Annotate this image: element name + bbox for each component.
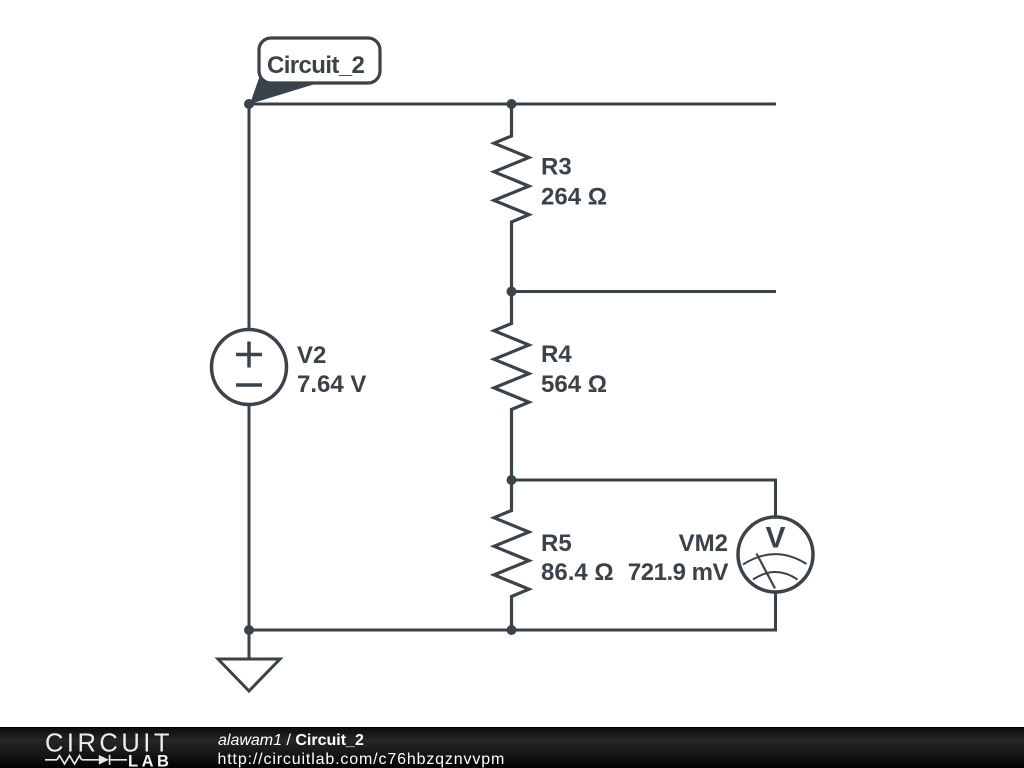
logo resistor-diode symbol [45, 755, 127, 765]
node R4-R5 junction [507, 475, 517, 485]
wire node C to voltmeter top [512, 480, 776, 518]
node R3 top junction [507, 99, 517, 109]
wire voltmeter bottom lead [512, 591, 776, 630]
wire left rail lower [248, 404, 251, 630]
voltage source V2 [212, 330, 287, 405]
node top-left junction [244, 99, 254, 109]
svg-text:721.9 mV: 721.9 mV [628, 559, 729, 586]
resistor R3 [494, 104, 529, 292]
svg-text:VM2: VM2 [679, 530, 728, 557]
resistor R4 [494, 292, 529, 481]
svg-text:http://circuitlab.com/c76hbzqz: http://circuitlab.com/c76hbzqznvvpm [218, 751, 506, 768]
voltmeter VM2 [738, 517, 813, 592]
svg-text:86.4 Ω: 86.4 Ω [541, 559, 614, 586]
svg-text:R3: R3 [541, 154, 572, 181]
svg-text:Circuit_2: Circuit_2 [267, 52, 365, 79]
label R3 [541, 154, 607, 211]
svg-text:7.64 V: 7.64 V [297, 371, 366, 398]
label VM2 [628, 530, 729, 586]
wire left rail upper [248, 104, 251, 330]
svg-text:alawam1 / Circuit_2: alawam1 / Circuit_2 [218, 732, 364, 749]
wire bottom rail [249, 629, 512, 632]
label R5 [541, 530, 614, 586]
svg-text:V2: V2 [297, 342, 326, 369]
svg-text:LAB: LAB [128, 753, 172, 768]
ground [218, 630, 280, 691]
svg-text:V: V [765, 522, 785, 555]
node bottom mid junction [507, 625, 517, 635]
label R4 [541, 341, 607, 398]
node bottom left junction [244, 625, 254, 635]
footer bar [0, 727, 1024, 768]
label V2 [297, 342, 366, 398]
callout Circuit_2 [250, 38, 380, 104]
wire top rail [249, 103, 776, 106]
wire mid rail node B [512, 290, 777, 293]
svg-text:264 Ω: 264 Ω [541, 184, 607, 211]
svg-text:R4: R4 [541, 341, 572, 368]
svg-text:564 Ω: 564 Ω [541, 371, 607, 398]
node R3-R4 junction [507, 287, 517, 297]
resistor R5 [494, 480, 529, 630]
svg-text:R5: R5 [541, 530, 572, 557]
